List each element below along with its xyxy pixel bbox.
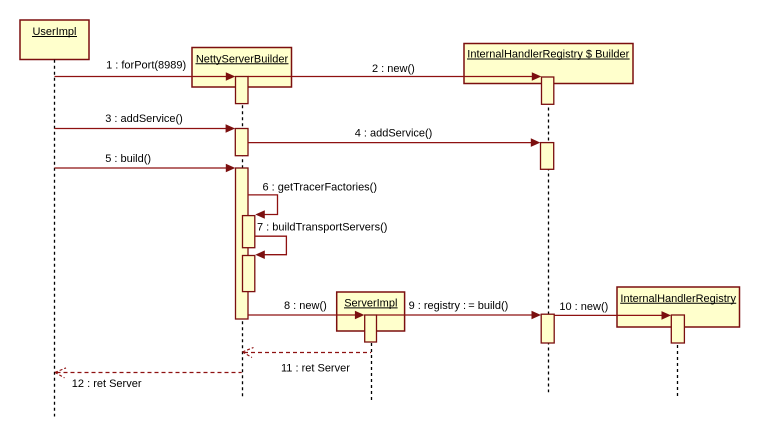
svg-text:12 : ret Server: 12 : ret Server [72, 378, 142, 390]
activation bar B9 Builder [541, 314, 554, 343]
message 6 : getTracerFactories() self-call [248, 182, 377, 219]
activation bar B10 InternalHandlerRegistry [671, 315, 684, 343]
activation bar B3 NettyServerBuilder [235, 129, 248, 156]
svg-text:5 : build(): 5 : build() [105, 153, 151, 165]
svg-text:7 : buildTransportServers(): 7 : buildTransportServers() [257, 222, 387, 234]
activation bar B1 NettyServerBuilder [236, 77, 249, 104]
activation bar B6 nested getTracerFactories [243, 216, 255, 248]
activation bar B8 ServerImpl [365, 315, 377, 342]
svg-text:6 : getTracerFactories(): 6 : getTracerFactories() [263, 182, 378, 194]
message 11 : ret Server (dashed return) [243, 348, 372, 375]
message 4 : addService() [248, 127, 540, 147]
participant UserImpl [20, 20, 89, 60]
message 8 : new() [248, 300, 364, 319]
lifeline ServerImpl [371, 331, 373, 401]
participant ServerImpl [337, 292, 405, 331]
svg-text:3 : addService(): 3 : addService() [105, 113, 183, 125]
svg-text:2 : new(): 2 : new() [372, 63, 415, 75]
participant InternalHandlerRegistry $ Builder [464, 44, 633, 84]
message 1 : forPort(8989) [55, 59, 236, 81]
activation bar B7 nested buildTransportServers [243, 256, 255, 292]
message 3 : addService() [55, 113, 236, 133]
message 5 : build() [55, 153, 236, 173]
svg-text:10 : new(): 10 : new() [559, 301, 608, 313]
activation bar B5 NettyServerBuilder long [236, 168, 249, 319]
lifeline NettyServerBuilder [242, 87, 244, 397]
participant InternalHandlerRegistry [617, 287, 740, 327]
svg-text:11 : ret Server: 11 : ret Server [281, 362, 350, 374]
message 12 : ret Server (dashed return) [55, 368, 242, 390]
message 2 : new() [248, 63, 541, 81]
svg-text:4 : addService(): 4 : addService() [355, 127, 433, 139]
lifeline UserImpl [54, 60, 56, 417]
lifeline InternalHandlerRegistry [677, 327, 679, 396]
activation bar B4 Builder [541, 143, 554, 170]
svg-text:1 : forPort(8989): 1 : forPort(8989) [106, 59, 186, 71]
svg-text:9 : registry : = build(): 9 : registry : = build() [409, 300, 509, 312]
message 9 : registry := build() [377, 300, 542, 319]
activation bar B2 Builder [542, 77, 554, 104]
participant NettyServerBuilder [192, 48, 292, 88]
message 10 : new() [554, 301, 671, 320]
svg-text:8 : new(): 8 : new() [284, 300, 327, 312]
lifeline InternalHandlerRegistry $ Builder [548, 84, 550, 393]
message 7 : buildTransportServers() self-call [255, 222, 388, 259]
